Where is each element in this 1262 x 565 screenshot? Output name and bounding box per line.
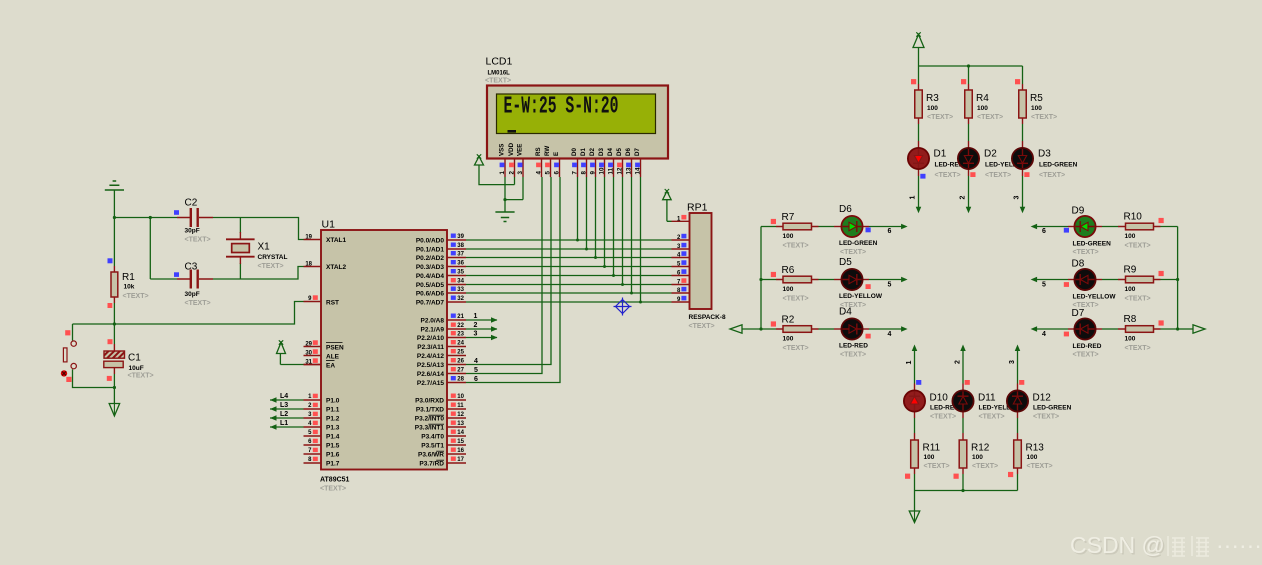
U1 pin 37 P0.2/AD2 <box>447 257 466 259</box>
U1 pin 21 P2.0/A8 <box>447 319 466 321</box>
svg-text:100: 100 <box>783 286 794 293</box>
svg-text:<TEXT>: <TEXT> <box>977 114 1003 121</box>
svg-text:VSS: VSS <box>499 144 506 156</box>
svg-text:P0.4/AD4: P0.4/AD4 <box>416 273 445 280</box>
U1 pin 23 P2.2/A10 <box>447 337 466 339</box>
svg-text:P3.3/INT1: P3.3/INT1 <box>415 425 445 432</box>
U1 pin 22 P2.1/A9 <box>447 328 466 330</box>
svg-text:XTAL2: XTAL2 <box>326 264 346 271</box>
svg-text:RP1: RP1 <box>687 202 708 214</box>
svg-text:LED-GREEN: LED-GREEN <box>1073 241 1112 248</box>
crystal X1 <box>239 218 241 234</box>
RP1 pin 4 <box>672 257 690 259</box>
wire P0.6 row to RP1 <box>466 292 672 294</box>
U1 pin 6 P1.5 <box>304 444 322 446</box>
LED D12 (green, off) <box>1007 390 1028 411</box>
svg-text:AT89C51: AT89C51 <box>320 477 350 484</box>
wire column D10 <box>912 345 918 352</box>
RP1 pin 7 <box>672 284 690 286</box>
LED D2 (yellow, off) <box>958 148 979 169</box>
wire: EA stub <box>304 364 322 366</box>
svg-text:10uF: 10uF <box>129 365 144 372</box>
svg-text:ALE: ALE <box>326 354 340 361</box>
svg-text:R5: R5 <box>1030 93 1043 104</box>
U1 pin 16 P3.6/WR <box>447 453 466 455</box>
wire net L1 <box>270 426 304 428</box>
svg-text:D4: D4 <box>839 307 852 318</box>
wire net 5 (P2.6 to LCD RS) <box>466 177 542 374</box>
svg-text:R1: R1 <box>122 272 135 283</box>
svg-text:P2.0/A8: P2.0/A8 <box>421 318 445 325</box>
wire: top bus <box>919 65 1023 67</box>
svg-text:C3: C3 <box>185 262 198 273</box>
U1 pin 11 P3.1/TXD <box>447 408 466 410</box>
svg-text:<TEXT>: <TEXT> <box>320 486 346 493</box>
svg-text:P1.3: P1.3 <box>326 425 340 432</box>
svg-text:VEE: VEE <box>517 144 524 156</box>
svg-text:P1.1: P1.1 <box>326 407 340 414</box>
power terminal at LCD VDD <box>475 157 484 166</box>
resistor R4 100 <box>965 90 973 118</box>
U1 pin 33 P0.6/AD6 <box>447 292 466 294</box>
U1 pin 8 P1.7 <box>304 462 322 464</box>
wire column R5 <box>1022 66 1024 84</box>
RP1 pin 5 <box>672 266 690 268</box>
svg-text:EA: EA <box>326 363 335 370</box>
LED D3 (green, off) <box>1012 148 1033 169</box>
wire VEE <box>505 177 523 200</box>
svg-text:R8: R8 <box>1124 314 1137 325</box>
ground terminal (down arrow) bottom-left <box>113 388 115 404</box>
resistor R12 100 <box>959 440 967 468</box>
resistor pack RP1 RESPACK-8 <box>690 213 712 309</box>
svg-text:2: 2 <box>955 360 962 364</box>
svg-text:18: 18 <box>305 262 312 268</box>
wire P0.2 row to RP1 <box>466 257 672 259</box>
svg-text:2: 2 <box>474 322 478 329</box>
svg-text:D4: D4 <box>607 148 614 156</box>
svg-text:RW: RW <box>544 146 551 156</box>
wire: bottom bus <box>915 490 1018 492</box>
svg-text:10: 10 <box>599 167 606 174</box>
wire <box>213 218 304 240</box>
wire column R3 <box>918 66 920 84</box>
svg-text:P1.4: P1.4 <box>326 434 340 441</box>
svg-text:4: 4 <box>888 331 892 338</box>
svg-text:3: 3 <box>474 331 478 338</box>
svg-text:P0.5/AD5: P0.5/AD5 <box>416 282 445 289</box>
svg-text:<TEXT>: <TEXT> <box>927 114 953 121</box>
svg-text:<TEXT>: <TEXT> <box>972 463 998 470</box>
wire net 3 <box>466 337 497 339</box>
resistor R10 100 <box>1126 223 1154 230</box>
svg-text:D2: D2 <box>984 149 997 160</box>
svg-text:LED-GREEN: LED-GREEN <box>1039 162 1078 169</box>
capacitor C3 <box>177 278 213 280</box>
wire: RST rail <box>113 303 115 324</box>
resistor R13 100 <box>1014 440 1022 468</box>
wire row D8 <box>1037 279 1069 281</box>
power terminal at RP1 <box>667 200 672 222</box>
wire P0.3 row to RP1 <box>466 266 672 268</box>
svg-text:13: 13 <box>457 421 464 427</box>
wire <box>113 374 115 388</box>
svg-text:RESPACK-8: RESPACK-8 <box>689 314 726 321</box>
svg-text:23: 23 <box>457 332 464 338</box>
svg-text:CSDN @: CSDN @ <box>1070 532 1165 558</box>
svg-text:100: 100 <box>1125 336 1136 343</box>
wire column D11 <box>960 345 966 352</box>
svg-text:P1.5: P1.5 <box>326 443 340 450</box>
wire net 1 <box>466 319 497 321</box>
svg-text:5: 5 <box>1042 282 1046 289</box>
U1 pin 18 XTAL2 <box>304 266 322 268</box>
svg-text:10: 10 <box>457 394 464 400</box>
node: C2 row <box>114 217 177 219</box>
U1 pin 10 P3.0/RXD <box>447 399 466 401</box>
svg-text:P1.0: P1.0 <box>326 398 340 405</box>
svg-text:30pF: 30pF <box>185 228 200 235</box>
wire net 4 (P2.5 to LCD RW) <box>466 177 551 365</box>
svg-text:<TEXT>: <TEXT> <box>783 243 809 250</box>
svg-text:P3.2/INT0: P3.2/INT0 <box>415 416 445 423</box>
push button <box>72 324 74 341</box>
wire P0.4 row to RP1 <box>466 275 672 277</box>
resistor R9 100 <box>1126 276 1154 283</box>
svg-text:26: 26 <box>457 359 464 365</box>
wire row D5 <box>761 279 776 281</box>
U1 pin 32 P0.7/AD7 <box>447 301 466 303</box>
svg-text:6: 6 <box>888 228 892 235</box>
svg-text:25: 25 <box>457 350 464 356</box>
svg-text:100: 100 <box>1125 286 1136 293</box>
svg-text:<TEXT>: <TEXT> <box>935 172 961 179</box>
svg-text:2: 2 <box>960 196 967 200</box>
svg-text:14: 14 <box>457 430 464 436</box>
svg-text:D5: D5 <box>616 148 623 156</box>
svg-text:<TEXT>: <TEXT> <box>689 323 715 330</box>
U1 pin 39 P0.0/AD0 <box>447 239 466 241</box>
svg-text:P0.6/AD6: P0.6/AD6 <box>416 291 445 298</box>
svg-text:9: 9 <box>590 171 597 175</box>
resistor R11 100 <box>911 440 919 468</box>
resistor R3 100 <box>915 90 923 118</box>
svg-text:LED-GREEN: LED-GREEN <box>839 240 878 247</box>
svg-text:5: 5 <box>888 282 892 289</box>
svg-text:E: E <box>553 152 560 156</box>
svg-text:R10: R10 <box>1124 212 1143 223</box>
svg-text:2: 2 <box>509 171 516 175</box>
svg-text:P2.2/A10: P2.2/A10 <box>417 335 444 342</box>
RP1 pin 9 <box>672 301 690 303</box>
power terminal top <box>913 35 924 48</box>
resistor R6 100 <box>783 276 812 283</box>
wire row D9 <box>1037 226 1069 228</box>
svg-text:3: 3 <box>517 171 524 175</box>
svg-text:LCD1: LCD1 <box>486 56 513 68</box>
svg-text:P2.4/A12: P2.4/A12 <box>417 353 444 360</box>
U1 pin 4 P1.3 <box>304 426 322 428</box>
svg-text:21: 21 <box>457 314 464 320</box>
LED D9 (green, on) <box>1074 216 1095 237</box>
wire D4 column <box>613 177 615 276</box>
LED D4 (red, off) <box>841 318 862 339</box>
U1 pin 25 P2.4/A12 <box>447 355 466 357</box>
svg-text:<TEXT>: <TEXT> <box>1031 114 1057 121</box>
svg-text:U1: U1 <box>322 219 336 231</box>
svg-text:17: 17 <box>457 457 464 463</box>
svg-text:VDD: VDD <box>508 142 515 156</box>
svg-text:<TEXT>: <TEXT> <box>1033 413 1059 420</box>
svg-text:LED-RED: LED-RED <box>839 343 868 350</box>
svg-text:1: 1 <box>910 196 917 200</box>
svg-text:14: 14 <box>635 167 642 174</box>
wire <box>150 278 177 280</box>
svg-text:<TEXT>: <TEXT> <box>840 249 866 256</box>
svg-text:<TEXT>: <TEXT> <box>985 172 1011 179</box>
svg-text:6: 6 <box>474 376 478 383</box>
svg-text:D10: D10 <box>930 393 949 404</box>
svg-text:RS: RS <box>535 147 542 156</box>
RP1 pin 2 <box>672 239 690 241</box>
svg-text:P0.7/AD7: P0.7/AD7 <box>416 300 445 307</box>
capacitor C1 <box>113 324 115 344</box>
svg-text:······: ······ <box>1216 532 1262 558</box>
svg-text:D3: D3 <box>1038 149 1051 160</box>
svg-text:P1.7: P1.7 <box>326 461 340 468</box>
svg-text:100: 100 <box>1125 233 1136 240</box>
wire row D6 <box>761 226 776 228</box>
svg-text:P0.3/AD3: P0.3/AD3 <box>416 264 445 271</box>
svg-text:16: 16 <box>457 448 464 454</box>
LED D6 (green, on) <box>841 216 862 237</box>
wire P0.0 row to RP1 <box>466 239 672 241</box>
ground below LCD <box>504 200 506 212</box>
svg-text:12: 12 <box>457 412 464 418</box>
svg-text:P2.5/A13: P2.5/A13 <box>417 362 444 369</box>
svg-text:4: 4 <box>1042 331 1046 338</box>
svg-text:P3.5/T1: P3.5/T1 <box>421 443 444 450</box>
svg-text:30pF: 30pF <box>185 291 200 298</box>
U1 pin 30 ALE <box>304 355 322 357</box>
svg-text:CRYSTAL: CRYSTAL <box>258 254 288 261</box>
svg-text:8: 8 <box>581 171 588 175</box>
svg-text:X1: X1 <box>258 242 271 253</box>
svg-text:P0.1/AD1: P0.1/AD1 <box>416 247 445 254</box>
U1 pin 13 P3.3/INT1 <box>447 426 466 428</box>
U1 pin 28 P2.7/A15 <box>447 382 466 384</box>
svg-text:7: 7 <box>572 171 579 175</box>
svg-text:D7: D7 <box>634 148 641 156</box>
microcontroller U1 AT89C51 <box>321 230 447 470</box>
svg-text:D3: D3 <box>598 148 605 156</box>
svg-text:L3: L3 <box>280 402 288 409</box>
wire net L3 <box>270 408 304 410</box>
wire D3 column <box>604 177 606 267</box>
svg-text:<TEXT>: <TEXT> <box>485 78 511 85</box>
svg-text:22: 22 <box>457 323 464 329</box>
svg-text:19: 19 <box>305 235 312 241</box>
wire net 6 (P2.7 to LCD E) <box>466 177 560 383</box>
origin marker (blue) <box>614 298 632 316</box>
wire row D4 <box>742 328 776 330</box>
svg-text:L2: L2 <box>280 411 288 418</box>
U1 pin 35 P0.4/AD4 <box>447 275 466 277</box>
wire D7 column <box>640 177 642 302</box>
RP1 pin 1 <box>672 220 690 222</box>
U1 pin 24 P2.3/A11 <box>447 346 466 348</box>
svg-text:C2: C2 <box>185 198 198 209</box>
svg-text:33: 33 <box>457 287 464 293</box>
svg-text:<TEXT>: <TEXT> <box>185 300 211 307</box>
svg-text:P1.6: P1.6 <box>326 452 340 459</box>
svg-text:<TEXT>: <TEXT> <box>1073 249 1099 256</box>
CSDN watermark <box>1070 532 1262 560</box>
svg-text:D11: D11 <box>978 393 996 404</box>
svg-text:D1: D1 <box>934 149 947 160</box>
LED D8 (yellow, off) <box>1074 269 1095 290</box>
U1 pin 1 P1.0 <box>304 399 322 401</box>
svg-text:<TEXT>: <TEXT> <box>979 413 1005 420</box>
svg-text:6: 6 <box>554 171 561 175</box>
wire VSS to ground <box>504 177 506 200</box>
U1 pin 14 P3.4/T0 <box>447 435 466 437</box>
svg-text:6: 6 <box>1042 228 1046 235</box>
svg-text:38: 38 <box>457 243 464 249</box>
svg-text:4: 4 <box>536 171 543 175</box>
U1 pin 17 P3.7/RD <box>447 462 466 464</box>
svg-text:R2: R2 <box>782 315 795 326</box>
svg-text:1: 1 <box>499 171 506 175</box>
svg-text:100: 100 <box>1027 454 1038 461</box>
U1 pin 34 P0.5/AD5 <box>447 284 466 286</box>
svg-text:<TEXT>: <TEXT> <box>1125 296 1151 303</box>
RP1 pin 8 <box>672 292 690 294</box>
svg-text:24: 24 <box>457 341 464 347</box>
svg-text:<TEXT>: <TEXT> <box>128 373 154 380</box>
svg-text:12: 12 <box>617 167 624 174</box>
svg-text:R11: R11 <box>923 443 941 454</box>
svg-text:D6: D6 <box>625 148 632 156</box>
ground (earth, inverted) top-left <box>105 181 124 190</box>
resistor R7 100 <box>783 223 812 230</box>
svg-text:XTAL1: XTAL1 <box>326 237 346 244</box>
svg-text:P3.4/T0: P3.4/T0 <box>421 434 444 441</box>
svg-text:100: 100 <box>972 454 983 461</box>
svg-text:R6: R6 <box>782 265 795 276</box>
svg-text:<TEXT>: <TEXT> <box>1027 463 1053 470</box>
svg-text:<TEXT>: <TEXT> <box>1073 352 1099 359</box>
svg-text:D12: D12 <box>1033 393 1052 404</box>
svg-text:P2.1/A9: P2.1/A9 <box>421 327 445 334</box>
svg-text:100: 100 <box>783 233 794 240</box>
wire <box>149 218 151 280</box>
resistor R1 <box>113 218 115 267</box>
svg-text:<TEXT>: <TEXT> <box>258 263 284 270</box>
svg-text:R9: R9 <box>1124 265 1137 276</box>
U1 pin 29 PSEN <box>304 346 322 348</box>
RP1 pin 6 <box>672 275 690 277</box>
svg-text:11: 11 <box>608 167 615 174</box>
svg-text:R4: R4 <box>976 93 989 104</box>
wire D1 column <box>586 177 588 249</box>
svg-text:13: 13 <box>626 167 633 174</box>
svg-text:D7: D7 <box>1072 308 1085 319</box>
wire P0.7 row to RP1 <box>466 301 672 303</box>
svg-text:35: 35 <box>457 270 464 276</box>
svg-text:3: 3 <box>1014 196 1021 200</box>
svg-text:1: 1 <box>906 361 913 365</box>
U1 pin 26 P2.5/A13 <box>447 364 466 366</box>
U1 pin 5 P1.4 <box>304 435 322 437</box>
svg-text:PSEN: PSEN <box>326 345 344 352</box>
svg-text:1: 1 <box>474 313 478 320</box>
U1 pin 12 P3.2/INT0 <box>447 417 466 419</box>
svg-text:<TEXT>: <TEXT> <box>783 345 809 352</box>
svg-text:100: 100 <box>1031 105 1042 112</box>
svg-text:P3.0/RXD: P3.0/RXD <box>415 398 444 405</box>
wire <box>113 190 115 218</box>
svg-text:P3.1/TXD: P3.1/TXD <box>416 407 444 414</box>
U1 pin 31 EA <box>304 364 322 366</box>
U1 pin 7 P1.6 <box>304 453 322 455</box>
LED D7 (red, off) <box>1074 318 1095 339</box>
svg-text:RST: RST <box>326 300 339 307</box>
svg-text:R13: R13 <box>1026 443 1045 454</box>
svg-text:34: 34 <box>457 279 464 285</box>
svg-text:D2: D2 <box>589 148 596 156</box>
terminal arrow left (row D4) <box>730 325 742 334</box>
U1 pin 38 P0.1/AD1 <box>447 248 466 250</box>
svg-text:<TEXT>: <TEXT> <box>930 413 956 420</box>
svg-text:D8: D8 <box>1072 259 1085 270</box>
svg-text:E-W:25 S-N:20: E-W:25 S-N:20 <box>504 92 619 120</box>
svg-text:D9: D9 <box>1072 206 1085 217</box>
svg-text:R3: R3 <box>926 93 939 104</box>
svg-text:LED-YELLOW: LED-YELLOW <box>839 293 883 300</box>
svg-text:L4: L4 <box>280 393 288 400</box>
wire D2 column <box>595 177 597 258</box>
svg-text:<TEXT>: <TEXT> <box>185 237 211 244</box>
svg-text:10k: 10k <box>124 283 135 290</box>
svg-text:100: 100 <box>783 336 794 343</box>
U1 pin 3 P1.2 <box>304 417 322 419</box>
svg-text:P0.0/AD0: P0.0/AD0 <box>416 238 445 245</box>
svg-text:P1.2: P1.2 <box>326 416 340 423</box>
svg-text:LED-YELLOW: LED-YELLOW <box>1073 294 1117 301</box>
wire D5 column <box>622 177 624 285</box>
svg-text:<TEXT>: <TEXT> <box>1125 345 1151 352</box>
svg-text:<TEXT>: <TEXT> <box>1039 172 1065 179</box>
svg-text:P2.6/A14: P2.6/A14 <box>417 371 444 378</box>
U1 pin 36 P0.3/AD3 <box>447 266 466 268</box>
svg-text:C1: C1 <box>128 353 141 364</box>
svg-text:R12: R12 <box>971 443 990 454</box>
wire net L2 <box>270 417 304 419</box>
svg-text:28: 28 <box>457 377 464 383</box>
svg-text:LED-RED: LED-RED <box>1073 343 1102 350</box>
svg-text:R7: R7 <box>782 212 795 223</box>
svg-text:11: 11 <box>457 403 464 409</box>
svg-text:27: 27 <box>457 368 464 374</box>
wire P0.1 row to RP1 <box>466 248 672 250</box>
svg-text:4: 4 <box>474 358 478 365</box>
svg-text:P3.7/RD: P3.7/RD <box>419 461 444 468</box>
resistor R2 100 <box>783 326 812 333</box>
wire column D12 <box>1015 345 1021 352</box>
svg-text:D6: D6 <box>839 204 852 215</box>
svg-text:L1: L1 <box>280 420 288 427</box>
